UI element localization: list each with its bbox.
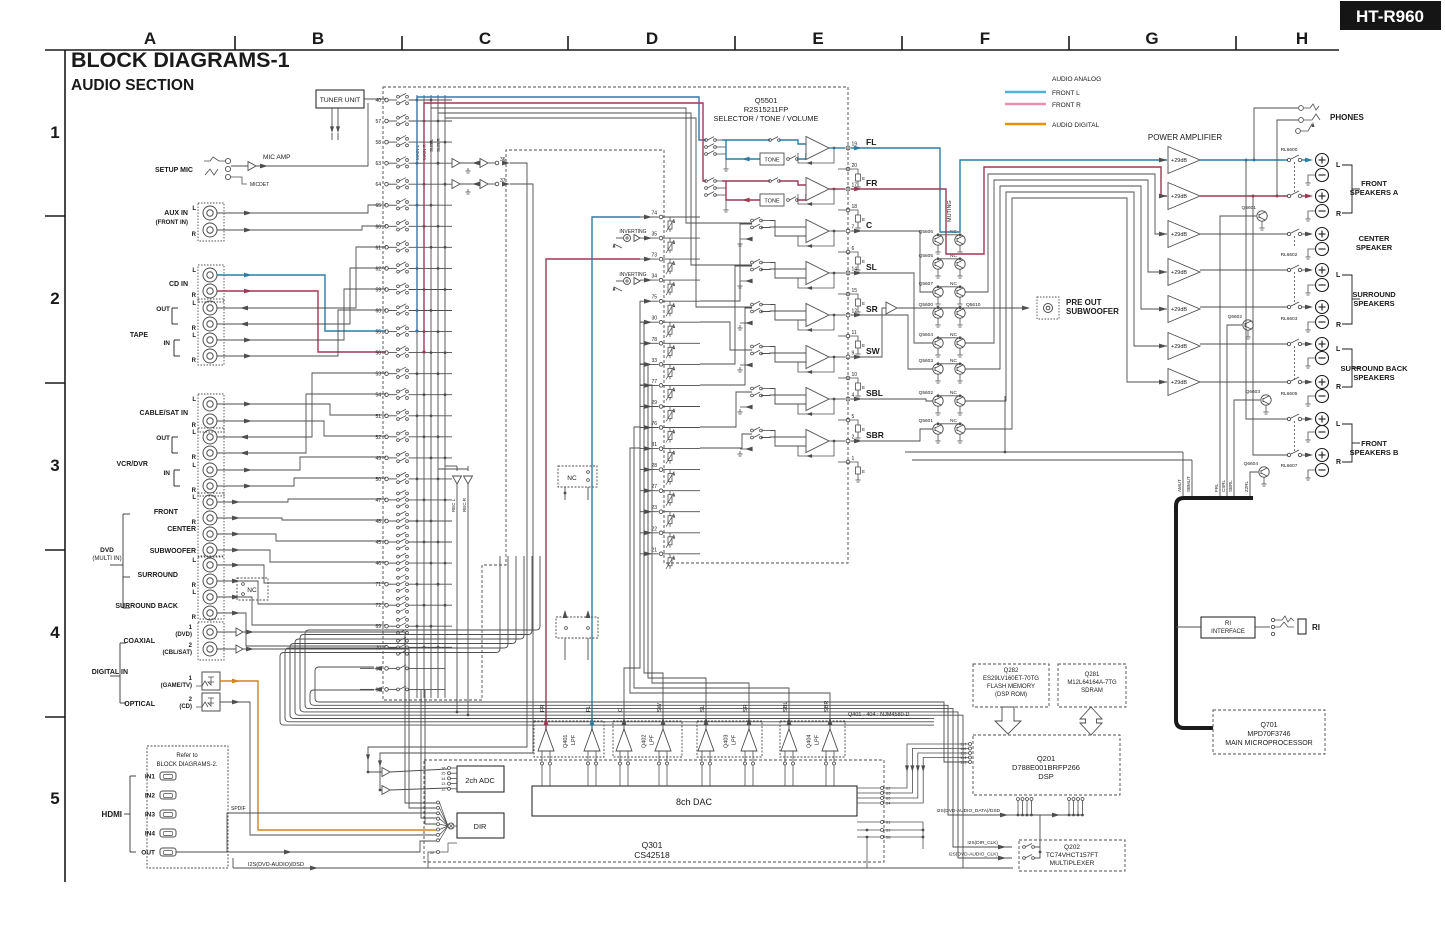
svg-text:45: 45 (375, 540, 381, 546)
mux switches (1023, 846, 1026, 849)
svg-text:NC: NC (950, 358, 957, 364)
svg-text:72: 72 (375, 603, 381, 609)
speaker + terminal A1 (1316, 154, 1329, 167)
DIR spdif junction (448, 823, 454, 829)
svg-text:AUDIO SECTION: AUDIO SECTION (71, 77, 194, 94)
wire SR to power amp (965, 186, 1167, 369)
svg-text:+29dB: +29dB (1171, 380, 1187, 386)
muting transistor Q5600 (933, 308, 943, 318)
svg-text:+29dB: +29dB (1171, 270, 1187, 276)
wire coax 2 (217, 648, 236, 650)
transistor Q6601 (1257, 211, 1267, 221)
page frame header line (45, 49, 1339, 51)
svg-text:Q6604: Q6604 (1244, 461, 1259, 467)
wire SBL from selector to muting (851, 399, 933, 401)
speaker - terminal A1 (1316, 169, 1329, 182)
svg-text:CSRL: CSRL (1221, 479, 1226, 492)
svg-text:FR: FR (540, 705, 546, 712)
riser FR red from LPF (546, 259, 640, 742)
channel SL output pin 14 (829, 272, 845, 274)
speaker + terminal B2 (1316, 376, 1329, 389)
svg-text:RL6605: RL6605 (1281, 391, 1298, 397)
svg-text:DSP: DSP (1038, 772, 1053, 781)
svg-text:6: 6 (852, 246, 855, 252)
bundle wire from pin 67 (315, 667, 928, 702)
wire tuner to selector pin 40 (364, 98, 386, 100)
svg-text:(MULTI IN): (MULTI IN) (92, 556, 121, 562)
riser SR (640, 385, 749, 742)
svg-text:NC: NC (247, 587, 257, 594)
DSP bottom pin cluster 2 (1068, 798, 1071, 801)
wire C from selector to muting (851, 231, 933, 292)
wire vcr out L (217, 373, 386, 437)
Q301 CS42518 dashed box (424, 760, 884, 862)
svg-text:Q5604: Q5604 (919, 332, 934, 338)
bundle wire 8 (280, 556, 928, 725)
svg-text:PHONES: PHONES (1330, 113, 1364, 122)
svg-text:MAIN MICROPROCESSOR: MAIN MICROPROCESSOR (1225, 740, 1313, 747)
wire SL to power amp (965, 180, 1167, 343)
svg-text:VCR/DVR: VCR/DVR (116, 461, 148, 468)
wire dvd subwoofer (217, 550, 386, 562)
mute control wires AMUT SBMUT (1182, 452, 1184, 496)
svg-text:L: L (192, 590, 196, 596)
svg-text:M12L64164A-7TG: M12L64164A-7TG (1067, 680, 1117, 686)
svg-text:L: L (1336, 272, 1341, 279)
muting transistor pair Q5600 right (955, 308, 965, 318)
svg-text:BLOCK DIAGRAMS-1: BLOCK DIAGRAMS-1 (71, 48, 290, 72)
bundle wires turning to DSP pins (928, 702, 969, 762)
channel C mixer and op-amp (751, 219, 754, 222)
rec L rec R buffers (453, 476, 462, 484)
svg-text:SUBWOOFER: SUBWOOFER (1066, 307, 1119, 316)
svg-text:REC L: REC L (451, 498, 456, 512)
op-amp FL feedback (798, 148, 834, 163)
ground pin 15 (838, 293, 846, 295)
svg-text:L: L (1336, 346, 1341, 353)
svg-text:MUTING: MUTING (947, 200, 953, 222)
svg-text:R2S15211FP: R2S15211FP (744, 105, 788, 114)
svg-text:(DSP ROM): (DSP ROM) (995, 692, 1027, 698)
wire tape out R (217, 268, 386, 324)
dvd multi in jack group front center sub (198, 493, 224, 556)
DAC right side pins (857, 787, 880, 789)
svg-text:53: 53 (375, 372, 381, 378)
svg-text:IN1: IN1 (145, 774, 156, 781)
tone box FL (760, 153, 784, 165)
svg-text:TUNER UNIT: TUNER UNIT (320, 97, 361, 104)
svg-text:63: 63 (375, 161, 381, 167)
svg-text:FRONT: FRONT (1361, 179, 1387, 188)
svg-text:L: L (192, 397, 196, 403)
RI interface box (1201, 617, 1255, 638)
op-amp SW (806, 346, 829, 369)
svg-text:E: E (862, 427, 865, 432)
svg-text:34: 34 (651, 274, 657, 280)
svg-text:78: 78 (651, 337, 657, 343)
transistor Q6604 (1259, 467, 1269, 477)
coaxial digital jacks (198, 622, 224, 660)
svg-text:E: E (862, 176, 865, 181)
speaker line B1 (1200, 343, 1288, 345)
svg-text:49: 49 (375, 456, 381, 462)
svg-text:NC: NC (950, 332, 957, 338)
svg-text:FL: FL (866, 137, 876, 147)
speaker line S2 (1200, 306, 1288, 308)
wire cd L blue (217, 275, 386, 331)
svg-text:113: 113 (960, 760, 967, 765)
channel FL output pin 19 (829, 147, 845, 149)
Q201 DSP dashed box (973, 735, 1120, 795)
bundle wire 7 (285, 556, 928, 722)
digital in bracket (120, 642, 126, 644)
svg-text:SURROUND BACK: SURROUND BACK (115, 603, 178, 610)
svg-text:Q282: Q282 (1004, 668, 1019, 674)
muting transistor Q5605 (933, 259, 943, 269)
svg-text:Q5606: Q5606 (919, 229, 934, 235)
mixer feed SBL (700, 392, 752, 427)
LPF op-amp SBR (822, 729, 838, 751)
svg-text:R: R (192, 583, 197, 589)
power amp +29dB channel 1 (1159, 158, 1167, 163)
thick control bus to microprocessor (1176, 498, 1253, 728)
svg-text:1: 1 (50, 123, 59, 142)
wire hdmi out spdif (176, 841, 436, 852)
tuner output wires (331, 108, 333, 128)
svg-text:FRONT L: FRONT L (1052, 90, 1080, 97)
volume pin 29 row (640, 406, 659, 408)
riser SL (640, 364, 706, 742)
op-amp SL (806, 262, 829, 285)
svg-text:SBL: SBL (783, 702, 789, 712)
svg-text:62: 62 (375, 266, 381, 272)
volume pin 73 row (640, 258, 659, 260)
ADC input buffers (382, 768, 390, 777)
wire tape out L (217, 247, 386, 308)
svg-text:L: L (1336, 162, 1341, 169)
svg-text:L: L (1336, 421, 1341, 428)
channel SR output pin 12 (829, 314, 845, 316)
Q282 flash memory dashed box (973, 664, 1049, 707)
svg-text:CABLE/SAT IN: CABLE/SAT IN (140, 410, 188, 417)
svg-text:Q6603: Q6603 (1246, 389, 1261, 395)
speaker + terminal F1 (1316, 413, 1329, 426)
svg-text:Q5601: Q5601 (919, 418, 934, 424)
svg-text:DIGITAL IN: DIGITAL IN (92, 669, 128, 676)
svg-text:57: 57 (375, 119, 381, 125)
svg-text:COAXIAL: COAXIAL (124, 638, 156, 645)
svg-text:IN4: IN4 (145, 831, 156, 838)
svg-text:I2S(DVD-AUDIO_CLK): I2S(DVD-AUDIO_CLK) (949, 852, 999, 858)
svg-text:NC: NC (950, 281, 957, 287)
svg-text:RL6607: RL6607 (1281, 463, 1298, 469)
2ch ADC box (457, 766, 504, 792)
LPF op-amp SR (741, 729, 757, 751)
svg-text:REC R: REC R (462, 497, 467, 512)
svg-text:E: E (862, 343, 865, 348)
muting transistor Q5607 (933, 287, 943, 297)
wire aux R (217, 226, 386, 230)
svg-text:61: 61 (375, 245, 381, 251)
subwoofer preout buffer (886, 302, 897, 314)
svg-text:56: 56 (375, 351, 381, 357)
svg-text:SBR: SBR (866, 430, 884, 440)
speaker + terminal A2 (1316, 190, 1329, 203)
sdram double block arrow (1080, 707, 1102, 735)
wire FL blue to power amp (851, 148, 1167, 232)
vcr/dvr jack group (198, 428, 224, 496)
LPF dashed box Q404 (780, 721, 845, 757)
svg-text:11: 11 (852, 330, 857, 336)
LPF channel arrow SL (704, 717, 709, 725)
svg-text:L: L (192, 495, 196, 501)
svg-text:SPEAKERS: SPEAKERS (1353, 299, 1394, 308)
svg-text:OUT: OUT (141, 850, 155, 857)
Q202 multiplexer dashed box (1019, 840, 1125, 871)
wire dvd surround back R (217, 613, 386, 646)
ground pin 18 (838, 209, 846, 211)
svg-text:R: R (1336, 384, 1341, 391)
svg-text:Q5605: Q5605 (919, 253, 934, 259)
svg-text:SBR: SBR (824, 701, 830, 712)
volume pin 34 row (640, 279, 659, 281)
svg-text:Q401 - 404 : NJM4580-D: Q401 - 404 : NJM4580-D (848, 712, 909, 718)
svg-text:Q5600: Q5600 (919, 302, 934, 308)
svg-text:FRL: FRL (1214, 483, 1219, 492)
svg-text:1: 1 (852, 456, 855, 462)
svg-text:LPF: LPF (571, 734, 577, 745)
svg-text:MPD70F3746: MPD70F3746 (1247, 731, 1290, 738)
svg-text:33: 33 (651, 358, 657, 364)
relay dashed links (1294, 162, 1296, 194)
rec R line (467, 484, 469, 715)
svg-text:48: 48 (375, 519, 381, 525)
svg-text:Q301: Q301 (642, 840, 663, 850)
left frame line (64, 50, 66, 882)
mixer feed SBR (700, 434, 752, 448)
svg-text:C: C (479, 29, 491, 48)
LPF channel arrow SBL (787, 717, 792, 725)
svg-text:PRE OUT: PRE OUT (1066, 298, 1102, 307)
channel SW mixer and op-amp (751, 345, 754, 348)
svg-text:8ch DAC: 8ch DAC (676, 797, 713, 807)
ground pin 5 (838, 419, 846, 421)
svg-text:R: R (1336, 211, 1341, 218)
svg-text:R: R (192, 293, 197, 299)
muting transistor pair Q5602 right (955, 396, 965, 406)
svg-text:E: E (862, 259, 865, 264)
svg-text:20: 20 (852, 163, 858, 169)
riser C (624, 301, 640, 742)
svg-text:(FRONT IN): (FRONT IN) (156, 220, 188, 226)
wire tape in R (217, 310, 386, 356)
svg-text:SETUP MIC: SETUP MIC (155, 167, 193, 174)
riser SBL (634, 427, 789, 742)
speaker + terminal S2 (1316, 301, 1329, 314)
mixer feed SW (700, 322, 752, 350)
svg-text:ES29LV160ET-70TG: ES29LV160ET-70TG (983, 676, 1039, 682)
svg-text:F: F (980, 29, 990, 48)
LPF op-amp FL (584, 729, 600, 751)
coax buffer 2 (236, 645, 243, 653)
svg-text:(DVD): (DVD) (175, 632, 192, 638)
svg-text:10: 10 (852, 372, 858, 378)
muting transistor pair Q5606 right (955, 235, 965, 245)
ground pin 20 (838, 168, 846, 170)
power amp +29dB channel 2 (1159, 194, 1167, 199)
svg-text:BLOCK DIAGRAMS-2.: BLOCK DIAGRAMS-2. (156, 762, 217, 768)
LPF op-amp SBL (781, 729, 797, 751)
power amp +29dB channel 6 (1159, 344, 1167, 349)
speaker + terminal S1 (1316, 264, 1329, 277)
svg-text:Q5607: Q5607 (919, 281, 934, 287)
svg-text:66: 66 (375, 224, 381, 230)
mixer feed SR (700, 308, 752, 385)
svg-text:R: R (1336, 322, 1341, 329)
channel FL mixer and op-amp (705, 139, 708, 142)
svg-text:H: H (1296, 29, 1308, 48)
svg-text:G: G (1145, 29, 1158, 48)
svg-text:FRONT: FRONT (1361, 439, 1387, 448)
volume pin 74 row (640, 216, 659, 218)
svg-text:RL6603: RL6603 (1281, 316, 1298, 322)
speaker - terminal F1 (1316, 426, 1329, 439)
svg-text:I2S(DIR_CLK): I2S(DIR_CLK) (967, 840, 998, 846)
svg-text:47: 47 (375, 498, 381, 504)
svg-text:SUBWOOFER: SUBWOOFER (150, 548, 196, 555)
svg-text:SDRAM: SDRAM (1081, 688, 1103, 694)
svg-text:NC: NC (950, 390, 957, 396)
svg-text:71: 71 (375, 582, 381, 588)
riser SBR (630, 448, 830, 742)
svg-text:HDMI: HDMI (102, 810, 122, 819)
wire C to power amp (965, 174, 1167, 292)
svg-text:30: 30 (651, 316, 657, 322)
svg-text:74: 74 (651, 211, 657, 217)
mux to dsp wire (1039, 815, 1041, 847)
bundle wire 6 (290, 556, 928, 719)
ground pin 6 (838, 251, 846, 253)
svg-text:73: 73 (651, 253, 657, 259)
svg-text:+29dB: +29dB (1171, 307, 1187, 313)
wire cable L (217, 404, 386, 415)
relay control wires FRL CSRL SBRL Z2RL (1220, 216, 1256, 496)
wire spdif line (227, 813, 436, 852)
mixer feed SL (700, 266, 752, 364)
svg-text:69: 69 (375, 624, 381, 630)
muting transistor pair Q5604 right (955, 338, 965, 348)
svg-text:50: 50 (430, 850, 435, 855)
svg-text:SPEAKERS: SPEAKERS (1353, 373, 1394, 382)
svg-text:SBMUT: SBMUT (1186, 476, 1191, 492)
svg-text:AUDIO DIGITAL: AUDIO DIGITAL (1052, 122, 1100, 129)
volume pin 28 row (640, 469, 659, 471)
op-amp SR feedback (798, 315, 834, 330)
phones jack (1299, 106, 1304, 111)
ground pin 10 (838, 377, 846, 379)
LPF channel arrow SR (747, 717, 752, 725)
wire SBR from selector to muting (851, 429, 933, 441)
svg-text:SPEAKER: SPEAKER (1356, 243, 1393, 252)
svg-text:R: R (192, 455, 197, 461)
pre out subwoofer connector (1037, 297, 1059, 319)
wire dvd front R (217, 518, 386, 520)
muting transistor pair Q5607 right (955, 287, 965, 297)
ground pin 1 (838, 461, 846, 463)
svg-text:R: R (192, 615, 197, 621)
selector IC Q5501 dashed outline (383, 87, 848, 700)
column tick marks (234, 36, 236, 50)
op-amp FL (806, 137, 829, 160)
svg-text:CENTER: CENTER (1359, 234, 1390, 243)
svg-text:L: L (192, 333, 196, 339)
svg-text:AUX IN: AUX IN (164, 210, 188, 217)
svg-text:77: 77 (651, 379, 657, 385)
volume pin 76 row (640, 427, 659, 429)
svg-text:SURROUND BACK: SURROUND BACK (1340, 364, 1408, 373)
svg-text:SURROUND: SURROUND (138, 572, 178, 579)
LPF channel arrow FR (544, 717, 549, 725)
svg-text:AUDIO ANALOG: AUDIO ANALOG (1052, 76, 1101, 83)
volume pin 22 row (640, 532, 659, 534)
channel FR output pin 17 (829, 188, 845, 190)
svg-text:TONE: TONE (764, 158, 780, 164)
svg-text:R: R (192, 423, 197, 429)
op-amp C feedback (798, 231, 834, 246)
volume pin 31 row (640, 448, 659, 450)
speaker - terminal S1 (1316, 279, 1329, 292)
op-amp FR (806, 178, 829, 201)
op-amp SL feedback (798, 273, 834, 288)
svg-text:54: 54 (375, 393, 381, 399)
bundle wire 5 (295, 556, 928, 715)
op-amp SBR feedback (798, 441, 834, 456)
op-amp C (806, 220, 829, 243)
svg-text:C: C (618, 708, 624, 712)
DAC clock pins lower (881, 821, 884, 824)
NC dashed box near surround back (237, 578, 268, 600)
svg-text:SW: SW (866, 346, 881, 356)
cable/sat jack group (198, 394, 224, 432)
svg-text:15: 15 (852, 288, 858, 294)
speaker - terminal B1 (1316, 352, 1329, 365)
svg-text:NC: NC (950, 418, 957, 424)
aux in jack group (198, 203, 224, 241)
vertical stubs near NC boxes (564, 638, 566, 660)
svg-text:64: 64 (375, 182, 381, 188)
op-amp FR feedback (798, 189, 834, 204)
wire optical 1 orange (220, 681, 436, 830)
svg-text:(GAME/TV): (GAME/TV) (161, 683, 192, 689)
svg-text:CS42518: CS42518 (634, 850, 670, 860)
speaker + terminal B1 (1316, 338, 1329, 351)
channel SBR output pin 2 (829, 440, 845, 442)
hdmi connectors IN1-IN4 OUT (160, 772, 176, 780)
svg-text:SPEAKERS A: SPEAKERS A (1350, 188, 1399, 197)
svg-text:50: 50 (375, 477, 381, 483)
muting transistor Q5606 (933, 235, 943, 245)
volume pin 23 row (640, 511, 659, 513)
selector bus vertical lines (416, 95, 418, 698)
svg-text:Q5610: Q5610 (966, 302, 981, 308)
rec out buffers pins 36 37 (452, 159, 460, 168)
muting transistor pair Q5605 right (955, 259, 965, 269)
riser FL blue from LPF (592, 217, 640, 742)
LPF channel arrow SBR (828, 717, 833, 725)
svg-text:3: 3 (50, 456, 59, 475)
channel C output pin 7 (829, 230, 845, 232)
wire dvd surround L (217, 565, 386, 583)
